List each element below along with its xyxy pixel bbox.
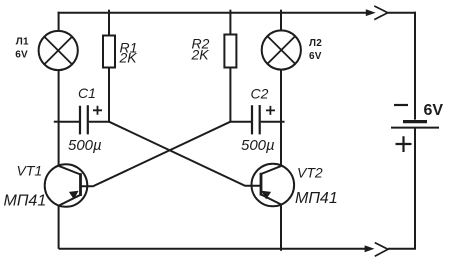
svg-text:МП41: МП41	[4, 193, 47, 210]
svg-text:C1: C1	[78, 85, 96, 101]
wire bottom rail right segment	[388, 248, 416, 250]
wire bottom rail left segment	[59, 248, 366, 250]
svg-text:6V: 6V	[424, 102, 444, 119]
transistor VT2	[251, 164, 294, 207]
wire top rail right segment	[388, 12, 416, 14]
wire R2 to C2 horizontal	[230, 121, 251, 123]
svg-text:500µ: 500µ	[241, 137, 275, 154]
battery plus sign	[396, 136, 412, 152]
wire R2 bottom lead	[229, 68, 231, 123]
wire right rail lower	[414, 128, 416, 249]
capacitor C1	[80, 105, 88, 134]
svg-text:Л2: Л2	[309, 38, 322, 49]
wire C1 left horizontal	[59, 121, 79, 123]
transistor VT1	[45, 164, 88, 207]
wire C1 right to R1 junction	[89, 121, 109, 123]
wire lamp L1 top lead	[58, 12, 60, 32]
lamp Л2	[262, 30, 301, 69]
svg-text:C2: C2	[251, 85, 269, 101]
capacitor C2	[252, 105, 260, 134]
wire C2 right horizontal with junction tick	[261, 121, 285, 123]
svg-text:500µ: 500µ	[68, 137, 102, 154]
svg-text:2K: 2K	[191, 47, 210, 63]
svg-text:2K: 2K	[119, 49, 138, 65]
resistor R1	[103, 36, 115, 68]
lamp Л1	[39, 31, 78, 70]
wire right rail upper	[414, 12, 416, 120]
wire VT2 emitter to bottom rail with junction tick	[280, 205, 282, 251]
svg-text:6V: 6V	[15, 50, 28, 61]
battery GB1 positive plate (long thin)	[391, 127, 439, 129]
svg-text:VT2: VT2	[297, 164, 323, 180]
svg-text:6V: 6V	[309, 51, 322, 62]
wire L2 bottom to VT2 collector	[280, 69, 282, 166]
battery minus sign	[394, 104, 408, 106]
svg-text:Л1: Л1	[16, 37, 29, 48]
arrow top current direction	[366, 6, 388, 20]
battery GB1 negative plate (short thick)	[403, 120, 427, 123]
wire top rail left segment	[58, 12, 368, 14]
svg-text:МП41: МП41	[295, 190, 338, 207]
svg-text:VT1: VT1	[17, 162, 43, 178]
plus sign C2 polarity	[266, 106, 275, 115]
plus sign C1 polarity	[93, 106, 102, 115]
wire R1 bottom lead	[108, 68, 110, 123]
wire cross-coupling R2/C2 node to VT1 base	[81, 122, 231, 187]
junction tick C1 node	[54, 121, 59, 123]
arrow bottom current direction	[365, 243, 388, 257]
wire cross-coupling C1/R1 node to VT2 base	[109, 122, 262, 186]
lamp Л2 top lead with junction tick	[280, 10, 282, 32]
wire VT1 emitter to bottom rail	[58, 205, 60, 248]
wire R2 top lead with junction tick	[229, 10, 231, 35]
wire L1 bottom to VT1 collector	[58, 70, 60, 166]
wire R1 top lead with junction tick	[108, 10, 110, 36]
resistor R2	[224, 35, 236, 68]
